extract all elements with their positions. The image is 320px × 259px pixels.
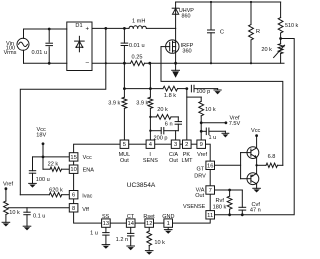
svg-text:14: 14 [127,221,134,227]
potentiometer 20 k divider bottom [261,39,284,64]
ground MOSFET source [172,63,180,78]
svg-text:10: 10 [70,167,76,173]
ground CT cap [127,245,135,247]
capacitor Cvf 47 n [239,190,261,215]
wire pin16 GT DRV to driver bases [214,164,240,166]
resistor 3.9 k MUL [108,97,127,108]
svg-text:360: 360 [182,49,191,55]
wire source top to bridge [24,28,67,30]
pin 16 GT DRV [194,161,214,180]
label Vin 100 Vrms [4,41,17,56]
svg-text:SENS: SENS [143,158,158,164]
svg-text:ENA: ENA [83,167,95,173]
resistor 20 k compensation [150,107,178,119]
svg-text:22 k: 22 k [48,161,59,167]
svg-text:Vff: Vff [82,207,89,213]
node Vcc 18V supply [36,127,46,145]
pin 3 C/A Out [169,140,180,164]
svg-text:Vrms: Vrms [4,50,17,56]
capacitor 100 u [29,157,50,184]
svg-text:100 p: 100 p [196,89,210,95]
svg-text:200 p: 200 p [154,136,168,142]
pin 2 PK LMT [182,140,194,164]
svg-text:Out: Out [195,193,204,199]
svg-text:DRV: DRV [194,174,206,180]
svg-text:Out: Out [169,158,178,164]
svg-text:18V: 18V [36,133,46,139]
capacitor C output [208,2,225,63]
capacitor 100 p [191,85,217,95]
svg-text:Rset: Rset [143,214,155,220]
pin 1 GND [162,214,174,227]
resistor 620 k Ivac [20,188,69,197]
wire jog to 10k [187,96,201,98]
svg-text:LMT: LMT [182,158,194,164]
svg-text:20 k: 20 k [261,47,272,53]
node output divider tap [279,37,282,40]
wire pin7 V/A out row [214,189,242,191]
svg-text:R: R [256,29,260,35]
svg-text:C: C [220,30,224,36]
resistor 22 k enable [43,161,69,171]
resistor 0.25 shunt [131,55,145,66]
op-amp U1 UC3854A IC body [74,144,211,223]
ground 10k left [2,221,10,223]
resistor Rvf 180 k [213,190,232,215]
svg-text:Ivac: Ivac [82,194,92,200]
svg-text:0.01 u: 0.01 u [32,50,48,56]
wire pin15 Vcc [33,156,70,158]
ground 100p [214,89,221,95]
pin 8 Vff [69,204,89,213]
wire Ivac feed from rectified line [20,28,106,194]
inductor 1 mH [129,19,146,29]
wire pin3 C/A out up [175,131,177,140]
resistor 6.8 gate [255,154,282,167]
ground 0.1u [23,225,31,227]
capacitor 1 u Vref [201,128,225,141]
transistor Q3 PNP driver [241,165,259,188]
svg-text:CT: CT [127,214,135,220]
svg-text:3.9 k: 3.9 k [108,101,120,107]
wire VSENSE feedback [214,39,294,215]
svg-text:100 u: 100 u [36,177,50,183]
bridge rectifier D1 [67,22,92,71]
ground GND pin1 [164,227,172,234]
svg-text:GT: GT [196,166,204,172]
wire pin4 net to rail [149,108,151,140]
pin 7 V/A Out [195,186,214,199]
svg-text:1.8 k: 1.8 k [164,93,176,99]
pin 4 I SENS [143,140,158,164]
pin 11 VSENSE [183,204,214,219]
resistor 3.9 k ISENS [136,97,153,108]
pin 10 ENA [69,165,94,173]
capacitor 1.2 n CT [116,227,134,246]
ground Rset [145,250,153,252]
svg-text:8: 8 [72,206,75,212]
ground 100u [29,182,37,184]
node Vref stub left [3,182,13,191]
transistor Q2 NPN driver [241,136,259,166]
svg-text:Out: Out [120,158,129,164]
svg-text:9: 9 [200,142,203,148]
wire bottom rail bridge- [92,62,131,64]
node dots on bottom rail [123,62,126,65]
wire gate drive loop [161,47,283,166]
wire base tie [240,153,242,179]
node Vcc driver [251,128,261,137]
svg-text:510 k: 510 k [285,23,298,29]
svg-text:0.25: 0.25 [132,55,143,61]
wire Vcc stub [42,144,44,169]
resistor 10 k Rset [147,227,165,250]
svg-text:Vref: Vref [197,152,207,158]
svg-text:Vcc: Vcc [83,155,92,161]
resistor R load [249,2,260,63]
svg-text:7.5V: 7.5V [229,121,241,127]
wire source bottom to bridge [24,62,67,64]
transistor Q1 IRFP 360 MOSFET [161,28,194,63]
svg-text:3: 3 [174,142,177,148]
svg-text:+: + [86,26,90,32]
capacitor 1 u soft start [90,227,109,244]
svg-text:16: 16 [207,163,213,169]
svg-text:GND: GND [162,214,174,220]
svg-text:6: 6 [72,193,75,199]
svg-text:11: 11 [207,213,213,219]
svg-text:10 k: 10 k [154,240,165,246]
pin 13 SS [102,214,111,227]
svg-text:1 u: 1 u [209,135,217,141]
capacitor 0.01u across rails [121,28,144,63]
wire top rail bridge+ [92,27,129,29]
svg-text:2: 2 [185,142,188,148]
svg-text:1 u: 1 u [90,231,98,237]
resistor 10 k Vff [4,189,20,223]
svg-text:47 n: 47 n [250,207,261,213]
wire pin9 Vref up [200,116,202,140]
svg-text:Vcc: Vcc [251,128,261,134]
svg-text:Vref: Vref [3,182,13,188]
svg-text:3.9 k: 3.9 k [136,101,148,107]
svg-text:1: 1 [167,221,170,227]
svg-text:10 k: 10 k [9,210,20,216]
pin 5 MUL Out [119,140,131,164]
svg-text:7: 7 [209,188,212,194]
resistor 1.8 k [163,86,178,99]
svg-text:5: 5 [123,142,126,148]
svg-text:VSENSE: VSENSE [183,204,206,210]
node junction dots on top rail [104,27,107,30]
svg-text:1 mH: 1 mH [132,19,145,25]
pin 15 Vcc [69,153,92,161]
wire pin5 net to rail [123,108,125,140]
capacitor 0.1 u Vff [24,208,46,226]
svg-text:20 k: 20 k [157,107,168,113]
AC source Vin [17,29,29,63]
wire top output rail [176,1,281,3]
pin 9 Vref [197,140,208,158]
ground driver [253,187,261,189]
svg-text:SS: SS [102,214,110,220]
svg-text:0.01 u: 0.01 u [129,43,145,49]
svg-text:UC3854A: UC3854A [127,182,156,189]
svg-text:620 k: 620 k [49,188,63,194]
svg-text:D1: D1 [75,23,82,29]
svg-text:15: 15 [70,155,76,161]
capacitor 200 p compensation [150,128,178,142]
svg-text:13: 13 [103,221,109,227]
svg-text:180 k: 180 k [213,205,227,211]
node dots pin11 row [228,213,231,216]
ground SS cap [102,244,110,246]
pin 14 CT [126,214,135,227]
svg-text:860: 860 [182,13,191,19]
svg-text:12: 12 [146,221,152,227]
capacitor 0.01u input [32,28,53,65]
ground 1u [222,131,229,137]
wire pin8 Vff [8,207,69,209]
svg-text:6.8: 6.8 [268,154,276,160]
wire peak-limit node row [124,88,163,90]
svg-text:Rvf: Rvf [216,198,225,204]
resistor 510 k divider top [278,2,298,39]
pin 6 Ivac [69,191,92,200]
svg-text:6 n: 6 n [165,121,173,127]
diode UHVP 860 boost [172,2,194,28]
capacitor 6 n compensation [165,117,182,131]
node Vref 7.5V [201,115,240,127]
svg-text:1.2 n: 1.2 n [116,237,128,243]
wire pin2 PK LMT up [186,89,188,140]
resistor 10 k peak limit [199,101,216,116]
pin 12 Rset [143,214,155,227]
svg-text:0.1 u: 0.1 u [33,214,45,220]
svg-text:10 k: 10 k [205,107,216,113]
